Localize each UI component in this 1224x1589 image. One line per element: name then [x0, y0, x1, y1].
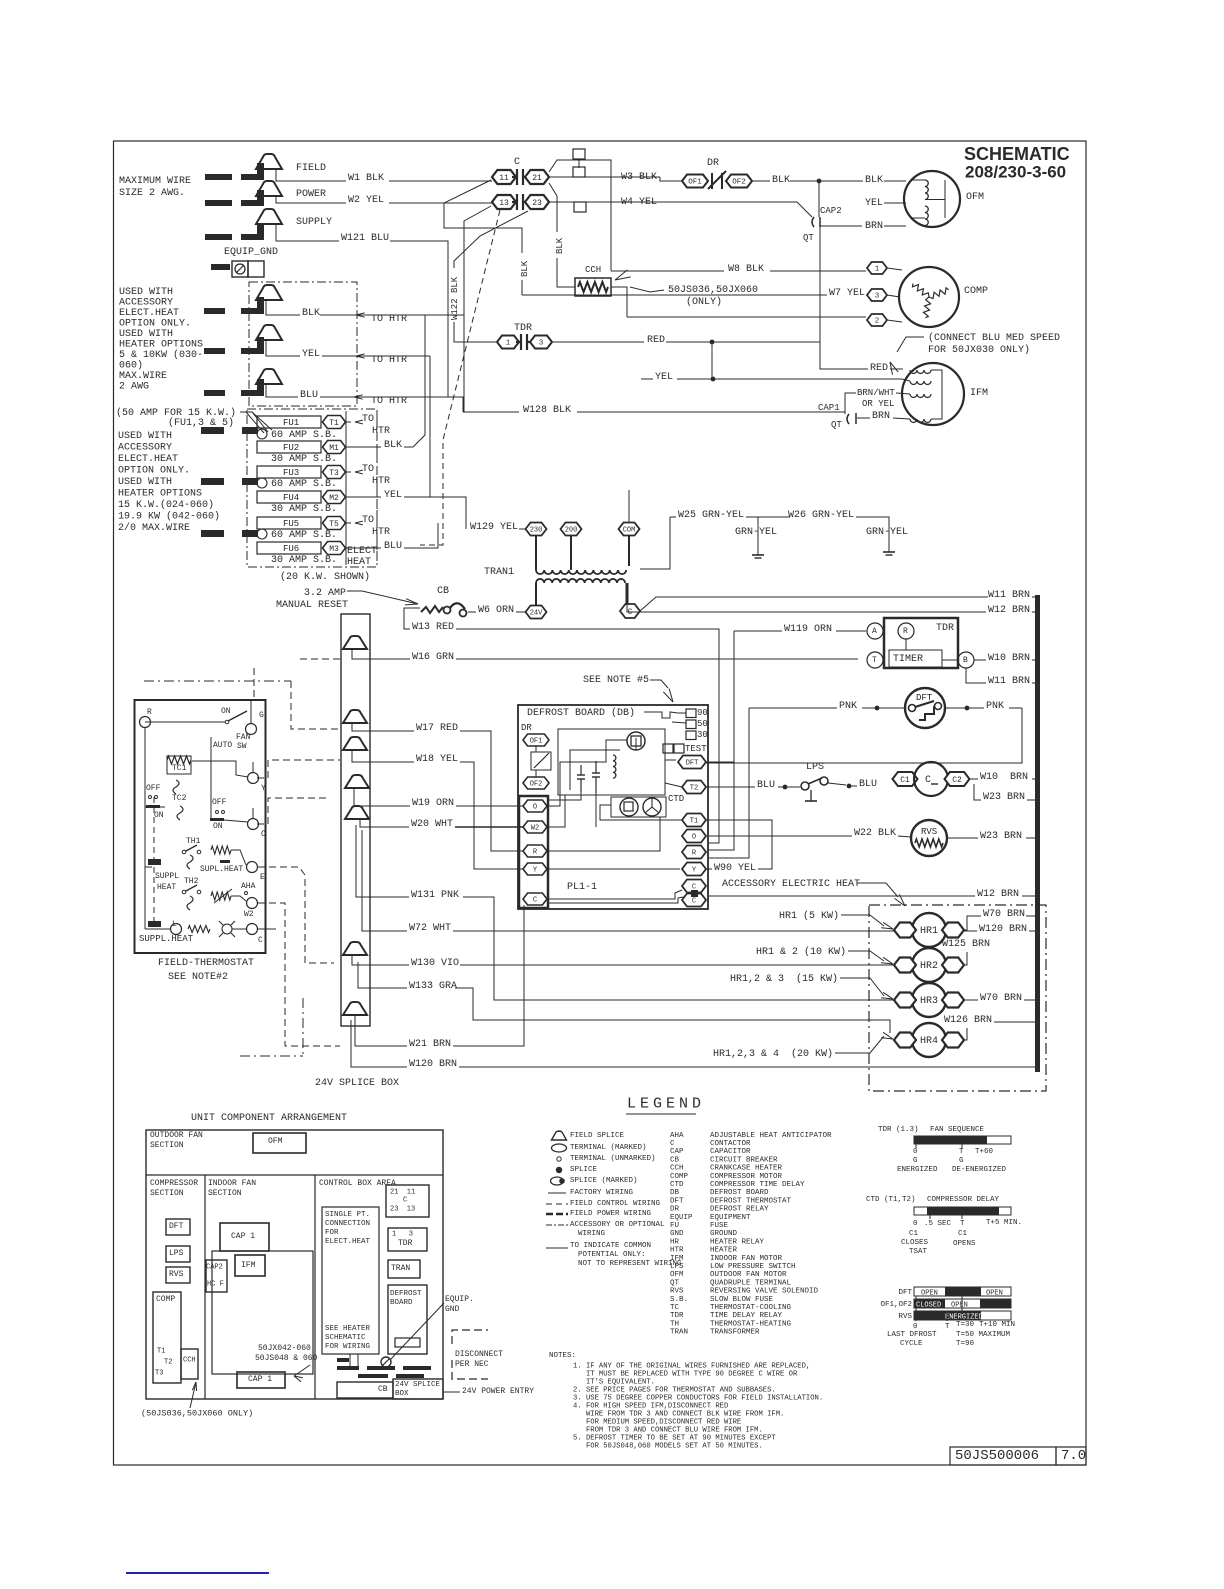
svg-text:TERMINAL (UNMARKED): TERMINAL (UNMARKED): [570, 1155, 656, 1163]
svg-text:60 AMP S.B.: 60 AMP S.B.: [271, 530, 337, 541]
svg-text:YEL: YEL: [655, 372, 673, 383]
svg-text:OFM: OFM: [966, 192, 984, 203]
svg-text:(20 K.W. SHOWN): (20 K.W. SHOWN): [280, 571, 370, 583]
svg-text:24V SPLICE BOX: 24V SPLICE BOX: [315, 1078, 399, 1089]
terminal M2: [323, 491, 346, 504]
wire FU6 BLU: [346, 547, 381, 549]
thermostat Y terminal: [248, 773, 259, 784]
wire CCH leads: [611, 287, 627, 317]
svg-text:21: 21: [532, 174, 542, 183]
svg-text:SEE HEATER: SEE HEATER: [325, 1325, 371, 1333]
DB relay coil circle: [627, 732, 645, 750]
wire hex23 to W4 YEL: [549, 201, 660, 203]
svg-text:SUPPLY: SUPPLY: [296, 217, 332, 228]
svg-text:AHA: AHA: [670, 1132, 684, 1140]
wire W25 GRN-YEL: [640, 597, 988, 611]
thermostat dash-dot boundary: [144, 680, 291, 682]
svg-text:W16 GRN: W16 GRN: [412, 652, 454, 663]
svg-text:1: 1: [875, 266, 880, 274]
svg-text:CTD: CTD: [670, 1181, 684, 1189]
svg-text:W18 YEL: W18 YEL: [416, 754, 458, 765]
svg-text:CAPACITOR: CAPACITOR: [710, 1148, 751, 1156]
svg-text:EQUIP: EQUIP: [670, 1214, 693, 1222]
svg-text:CAP: CAP: [670, 1148, 684, 1156]
wire W21 BRN: [355, 1015, 407, 1046]
svg-text:1: 1: [506, 340, 511, 348]
svg-text:HR1,2,3 & 4 (20 KW): HR1,2,3 & 4 (20 KW): [713, 1048, 833, 1060]
COMP box: [153, 1292, 181, 1383]
svg-text:230: 230: [530, 527, 543, 535]
terminal C strip: [523, 893, 547, 905]
DFT box: [166, 1219, 190, 1235]
svg-text:W19 ORN: W19 ORN: [412, 798, 454, 809]
svg-text:THERMOSTAT-HEATING: THERMOSTAT-HEATING: [710, 1320, 792, 1328]
svg-text:30 AMP S.B.: 30 AMP S.B.: [271, 454, 337, 465]
wire FU2 BLK: [346, 446, 381, 448]
svg-text:HR1: HR1: [920, 926, 938, 937]
CAP2 HC F box: [206, 1260, 227, 1292]
svg-text:FIELD POWER WIRING: FIELD POWER WIRING: [570, 1210, 652, 1218]
wire W120 BRN: [351, 1020, 407, 1067]
svg-text:W1 BLK: W1 BLK: [348, 173, 384, 184]
svg-text:COMP: COMP: [156, 1295, 175, 1304]
terminal tab 1: [573, 149, 585, 159]
svg-text:CAP 1: CAP 1: [231, 1232, 255, 1241]
heater relay HR1: [912, 913, 946, 947]
svg-text:HR2: HR2: [920, 961, 938, 972]
wire BLU to heater: [320, 396, 350, 398]
wire W119 ORN riser: [706, 761, 734, 763]
svg-text:DISCONNECT: DISCONNECT: [455, 1350, 503, 1359]
svg-text:USED WITH: USED WITH: [119, 287, 173, 298]
terminal tab 2: [573, 167, 585, 177]
svg-text:3.2 AMP: 3.2 AMP: [304, 588, 346, 599]
terminal 11: [492, 170, 516, 184]
DB test squares: [663, 744, 673, 753]
svg-text:LOW PRESSURE SWITCH: LOW PRESSURE SWITCH: [710, 1263, 796, 1271]
svg-text:TC: TC: [670, 1304, 680, 1312]
svg-text:FIELD: FIELD: [296, 163, 326, 174]
svg-text:M3: M3: [329, 545, 339, 554]
terminal T circle: [867, 652, 883, 668]
svg-text:FOR WIRING: FOR WIRING: [325, 1343, 371, 1351]
svg-text:CB: CB: [670, 1156, 680, 1164]
svg-text:W126 BRN: W126 BRN: [944, 1015, 992, 1026]
svg-text:W133 GRA: W133 GRA: [409, 981, 457, 992]
svg-text:SECTION: SECTION: [150, 1141, 184, 1150]
legend splice: [556, 1167, 562, 1173]
svg-text:COMPRESSOR DELAY: COMPRESSOR DELAY: [927, 1196, 1000, 1204]
svg-text:G: G: [259, 711, 264, 720]
svg-text:T+60: T+60: [975, 1148, 994, 1156]
PL1-1 terminal strip: [519, 796, 548, 908]
svg-text:BLK: BLK: [555, 237, 565, 254]
svg-text:IFM: IFM: [241, 1261, 256, 1270]
malfunction light: [188, 926, 210, 933]
svg-text:BRN/WHT: BRN/WHT: [857, 388, 895, 398]
thermostat G terminal: [246, 724, 257, 735]
wire W23 BRN from C2: [974, 784, 981, 800]
svg-text:SINGLE PT.: SINGLE PT.: [325, 1211, 370, 1219]
left dashed riser suppl heat: [153, 797, 155, 922]
svg-text:24V POWER ENTRY: 24V POWER ENTRY: [462, 1387, 534, 1396]
svg-text:(50JS036,50JX060 ONLY): (50JS036,50JX060 ONLY): [141, 1409, 253, 1419]
svg-text:DEFROST THERMOSTAT: DEFROST THERMOSTAT: [710, 1197, 792, 1205]
svg-text:OUTDOOR FAN MOTOR: OUTDOOR FAN MOTOR: [710, 1271, 787, 1279]
svg-text:W129 YEL: W129 YEL: [470, 522, 518, 533]
svg-text:W12 BRN: W12 BRN: [988, 605, 1030, 616]
terminal COMP 2: [867, 314, 887, 326]
svg-text:C2: C2: [952, 776, 962, 785]
svg-text:OUTDOOR FAN: OUTDOOR FAN: [150, 1131, 203, 1140]
svg-text:RVS: RVS: [898, 1313, 912, 1321]
svg-text:HEATER RELAY: HEATER RELAY: [710, 1238, 765, 1246]
svg-text:LPS: LPS: [169, 1249, 184, 1258]
svg-text:A: A: [872, 627, 877, 636]
svg-text:W2 YEL: W2 YEL: [348, 195, 384, 206]
heater relay HR2: [912, 948, 946, 982]
svg-text:W23 BRN: W23 BRN: [983, 792, 1025, 803]
heater relay HR4: [912, 1023, 946, 1057]
svg-text:OPTION ONLY.: OPTION ONLY.: [118, 465, 190, 476]
svg-text:50JS500006: 50JS500006: [955, 1448, 1039, 1464]
svg-text:EQUIP_GND: EQUIP_GND: [224, 247, 278, 258]
svg-text:IT MUST BE REPLACED WITH TYPE: IT MUST BE REPLACED WITH TYPE 90 DEGREE …: [573, 1371, 798, 1379]
svg-text:FOR MEDIUM SPEED,DISCONNECT RE: FOR MEDIUM SPEED,DISCONNECT RED WIRE: [573, 1419, 741, 1427]
svg-text:NOTES:: NOTES:: [549, 1352, 576, 1360]
svg-text:ELECT: ELECT: [347, 546, 377, 557]
defrost board DB box: [518, 705, 708, 909]
wire RED to IFM: [820, 342, 868, 369]
svg-text:QT: QT: [803, 233, 814, 243]
svg-text:SLOW BLOW FUSE: SLOW BLOW FUSE: [710, 1296, 774, 1304]
svg-text:CAP2: CAP2: [206, 1264, 223, 1272]
svg-text:T: T: [959, 1148, 964, 1156]
svg-text:BRN: BRN: [865, 221, 883, 232]
svg-text:BLU: BLU: [300, 390, 318, 401]
terminal A circle: [867, 623, 883, 639]
svg-text:OPTION ONLY.: OPTION ONLY.: [119, 318, 191, 329]
svg-text:ACCESSORY: ACCESSORY: [118, 442, 172, 453]
svg-text:Y: Y: [261, 784, 266, 793]
wire W72 WHT: [362, 830, 407, 931]
svg-text:TO: TO: [362, 515, 374, 526]
svg-text:QT: QT: [831, 420, 842, 430]
svg-text:W6 ORN: W6 ORN: [478, 605, 514, 616]
svg-text:S.B.: S.B.: [670, 1296, 688, 1304]
svg-text:HTR: HTR: [372, 476, 390, 487]
wire W11 BRN from B: [966, 668, 986, 683]
svg-text:NOT TO REPRESENT WIRING: NOT TO REPRESENT WIRING: [578, 1260, 682, 1268]
wire W10 BRN from C2: [970, 778, 978, 780]
svg-text:5 & 10KW (030-: 5 & 10KW (030-: [119, 349, 203, 361]
legend common potential: [546, 1247, 568, 1249]
svg-text:50: 50: [697, 719, 708, 729]
legend field control wiring: [546, 1203, 568, 1205]
wire W20 WHT: [360, 819, 409, 827]
terminal M1: [323, 441, 346, 454]
legend factory wiring: [548, 1192, 566, 1194]
wire BLK vertical to W7 YEL: [521, 280, 523, 295]
field power lead dashes SUPPLY: [205, 234, 232, 240]
defrost board box unit: [388, 1285, 427, 1354]
svg-text:OF1: OF1: [688, 179, 702, 187]
wire W12 BRN lower: [709, 895, 975, 897]
svg-text:UNIT COMPONENT ARRANGEMENT: UNIT COMPONENT ARRANGEMENT: [191, 1113, 347, 1124]
terminal O strip: [523, 800, 547, 812]
svg-text:3: 3: [875, 293, 880, 301]
svg-text:CCH: CCH: [585, 265, 601, 275]
svg-text:19.9 KW (042-060): 19.9 KW (042-060): [118, 510, 220, 522]
svg-text:T1: T1: [690, 818, 698, 826]
reversing valve solenoid RVS: [911, 820, 947, 856]
svg-text:LPS: LPS: [806, 762, 824, 773]
legend field power wiring: [546, 1213, 568, 1216]
RVS box: [166, 1267, 190, 1283]
svg-text:W7 YEL: W7 YEL: [829, 288, 865, 299]
wire FU5 to heater: [346, 522, 351, 524]
fuse FU1: [257, 416, 321, 428]
svg-text:W122 BLK: W122 BLK: [450, 276, 460, 320]
svg-text:TSAT: TSAT: [909, 1248, 928, 1256]
svg-text:FOR 50JX030 ONLY): FOR 50JX030 ONLY): [928, 344, 1030, 356]
svg-text:W128 BLK: W128 BLK: [523, 405, 571, 416]
svg-text:3. USE 75 DEGREE COPPER CONDUC: 3. USE 75 DEGREE COPPER CONDUCTORS FOR F…: [573, 1395, 823, 1403]
svg-text:ACCESSORY: ACCESSORY: [119, 297, 173, 308]
svg-text:7.0: 7.0: [1061, 1448, 1086, 1464]
svg-text:M1: M1: [329, 444, 339, 453]
svg-text:TIME DELAY RELAY: TIME DELAY RELAY: [710, 1312, 783, 1320]
svg-text:O: O: [533, 804, 537, 812]
svg-text:FU2: FU2: [283, 443, 299, 453]
svg-text:FROM TDR 3 AND CONNECT BLU WIR: FROM TDR 3 AND CONNECT BLU WIRE FROM IFM…: [573, 1427, 763, 1435]
svg-text:ELECT.HEAT: ELECT.HEAT: [119, 308, 179, 319]
fuse FU2: [257, 441, 321, 453]
svg-text:DEFROST BOARD (DB): DEFROST BOARD (DB): [527, 707, 635, 719]
svg-text:W8 BLK: W8 BLK: [728, 264, 764, 275]
defrost thermostat DFT: [905, 688, 945, 728]
svg-text:C: C: [670, 1140, 675, 1148]
svg-text:HR1 (5 KW): HR1 (5 KW): [779, 910, 839, 922]
field power dashes disconnect: [337, 1366, 359, 1370]
svg-text:HTR: HTR: [372, 527, 390, 538]
svg-text:G: G: [913, 1157, 918, 1165]
svg-text:ELECT.HEAT: ELECT.HEAT: [118, 454, 178, 465]
svg-text:W3 BLK: W3 BLK: [621, 172, 657, 183]
single point connection stubs: [349, 1354, 351, 1368]
QT vertical wire: [818, 181, 820, 217]
svg-text:LAST DFROST: LAST DFROST: [887, 1331, 937, 1339]
svg-text:FOR: FOR: [325, 1229, 339, 1237]
svg-text:W120 BRN: W120 BRN: [409, 1059, 457, 1070]
svg-text:BOARD: BOARD: [390, 1299, 413, 1307]
wire CCH feed vertical: [549, 183, 557, 232]
wire hex21 to W3 BLK: [549, 176, 660, 178]
svg-text:SUPPL.HEAT: SUPPL.HEAT: [139, 934, 194, 944]
svg-text:CRANKCASE HEATER: CRANKCASE HEATER: [710, 1165, 783, 1173]
svg-text:11: 11: [499, 174, 509, 183]
field splice heater BLU: [256, 369, 282, 384]
wire W70 BRN HR1: [964, 916, 981, 930]
junction dot BLK: [790, 180, 863, 182]
wire PNK left: [749, 707, 837, 709]
svg-text:W125 BRN: W125 BRN: [942, 939, 990, 950]
svg-text:CTD (T1,T2): CTD (T1,T2): [866, 1196, 916, 1204]
wire BRN OFM: [820, 225, 862, 227]
splice trapezoid 2: [343, 710, 367, 723]
svg-text:1. IF ANY OF THE ORIGINAL WIRE: 1. IF ANY OF THE ORIGINAL WIRES FURNISHE…: [573, 1363, 810, 1371]
svg-text:T5: T5: [329, 520, 339, 529]
wire W12 BRN top: [627, 604, 986, 612]
svg-text:W21 BRN: W21 BRN: [409, 1039, 451, 1050]
contactor coil C2: [945, 772, 970, 786]
svg-text:MANUAL RESET: MANUAL RESET: [276, 600, 348, 611]
field splice heater BLK: [256, 285, 282, 300]
svg-text:SEE NOTE#2: SEE NOTE#2: [168, 972, 228, 983]
svg-text:DFT: DFT: [686, 760, 699, 768]
svg-text:PNK: PNK: [839, 701, 857, 712]
svg-text:C: C: [514, 157, 520, 168]
svg-text:C1: C1: [958, 1230, 968, 1238]
svg-text:CIRCUIT BREAKER: CIRCUIT BREAKER: [710, 1156, 778, 1164]
svg-text:1 3: 1 3: [392, 1231, 413, 1239]
bottom blue line: [126, 1572, 269, 1574]
transformer secondary coil: [536, 579, 625, 583]
svg-text:13: 13: [499, 199, 509, 208]
svg-text:3: 3: [539, 340, 544, 348]
svg-text:SIZE 2 AWG.: SIZE 2 AWG.: [119, 188, 185, 199]
svg-text:WIRING: WIRING: [578, 1230, 606, 1238]
svg-text:BRN: BRN: [872, 411, 890, 422]
terminal DFT DB: [678, 756, 706, 769]
terminal C transformer: [620, 604, 640, 618]
svg-text:60 AMP S.B.: 60 AMP S.B.: [271, 430, 337, 441]
svg-text:THERMOSTAT-COOLING: THERMOSTAT-COOLING: [710, 1304, 792, 1312]
svg-text:EQUIPMENT: EQUIPMENT: [710, 1214, 751, 1222]
terminal OF1 DB: [523, 734, 549, 746]
svg-text:BLU: BLU: [859, 779, 877, 790]
svg-text:T2: T2: [164, 1359, 172, 1367]
contactor coil circle C_: [914, 762, 948, 796]
compressor motor COMP: [899, 267, 959, 327]
svg-text:COMPRESSOR: COMPRESSOR: [150, 1179, 198, 1188]
svg-text:T: T: [872, 656, 877, 665]
svg-text:T: T: [945, 1323, 950, 1331]
wire W6 ORN: [468, 611, 476, 613]
svg-text:HTR: HTR: [670, 1247, 684, 1255]
DFT gray riser: [706, 762, 749, 764]
wire W19 ORN: [354, 788, 410, 806]
contactor terminal box unit: [386, 1185, 429, 1217]
svg-text:CONNECTION: CONNECTION: [325, 1220, 370, 1228]
svg-text:T: T: [960, 1220, 965, 1228]
fuse FU6: [257, 542, 321, 554]
svg-text:T+5 MIN.: T+5 MIN.: [986, 1219, 1022, 1227]
svg-text:YEL: YEL: [384, 490, 402, 501]
24V splice box: [341, 614, 370, 1026]
terminal C DB lower: [682, 894, 706, 907]
svg-text:COMPRESSOR TIME DELAY: COMPRESSOR TIME DELAY: [710, 1181, 805, 1189]
svg-text:TRANSFORMER: TRANSFORMER: [710, 1329, 760, 1337]
svg-text:30 AMP S.B.: 30 AMP S.B.: [271, 504, 337, 515]
outdoor fan motor OFM: [904, 171, 960, 227]
svg-text:DFT: DFT: [169, 1222, 184, 1231]
svg-text:YEL: YEL: [302, 349, 320, 360]
svg-text:(CONNECT BLU MED SPEED: (CONNECT BLU MED SPEED: [928, 332, 1060, 344]
svg-text:GND: GND: [670, 1230, 684, 1238]
svg-text:TRAN: TRAN: [391, 1264, 410, 1273]
svg-text:IT'S EQUIVALENT.: IT'S EQUIVALENT.: [573, 1379, 655, 1387]
svg-text:2/0 MAX.WIRE: 2/0 MAX.WIRE: [118, 522, 190, 534]
svg-text:C: C: [533, 897, 537, 905]
terminal T3: [323, 466, 346, 479]
svg-text:USED WITH: USED WITH: [118, 477, 172, 488]
svg-text:HR1 & 2 (10 KW): HR1 & 2 (10 KW): [756, 946, 846, 958]
wire W17 RED: [352, 723, 414, 731]
wire W13 RED: [404, 608, 420, 629]
svg-text:2: 2: [875, 318, 880, 326]
contactor contact 13-23: [512, 194, 528, 210]
splice trapezoid 7: [343, 1002, 367, 1015]
terminal tab 3: [574, 202, 586, 212]
svg-text:W10 BRN: W10 BRN: [988, 653, 1030, 664]
splice trapezoid 1: [343, 636, 367, 649]
CAP1 box upper: [220, 1223, 269, 1251]
svg-text:T3: T3: [155, 1370, 163, 1378]
svg-text:W11 BRN: W11 BRN: [988, 676, 1030, 687]
CB box unit: [337, 1382, 393, 1398]
svg-text:HC F: HC F: [207, 1281, 224, 1289]
fuse FU5: [257, 517, 321, 529]
svg-text:ADJUSTABLE HEAT ANTICIPATOR: ADJUSTABLE HEAT ANTICIPATOR: [710, 1132, 832, 1140]
svg-text:ON: ON: [221, 707, 231, 716]
svg-text:DFT: DFT: [898, 1289, 912, 1297]
terminal R DB: [682, 846, 706, 859]
svg-text:SEE NOTE #5: SEE NOTE #5: [583, 675, 649, 686]
terminal O DB: [682, 830, 706, 843]
svg-text:C: C: [925, 775, 931, 786]
svg-text:060): 060): [119, 359, 143, 371]
wire FU4 YEL: [346, 496, 381, 498]
svg-text:W120 BRN: W120 BRN: [979, 924, 1027, 935]
svg-text:50JS036,50JX060: 50JS036,50JX060: [668, 285, 758, 296]
svg-text:TH: TH: [670, 1320, 679, 1328]
svg-text:CLOSES: CLOSES: [901, 1239, 929, 1247]
svg-text:INDOOR FAN: INDOOR FAN: [208, 1179, 256, 1188]
LPS box: [166, 1246, 190, 1262]
svg-text:ON: ON: [154, 811, 164, 820]
DB timer squares 90 50 30: [686, 709, 696, 718]
svg-text:TC1: TC1: [172, 764, 187, 773]
svg-text:RED: RED: [647, 335, 665, 346]
TIMER rect: [889, 650, 942, 667]
fuse FU3: [257, 466, 321, 478]
svg-text:QUADRUPLE TERMINAL: QUADRUPLE TERMINAL: [710, 1279, 792, 1287]
terminal COMP 1: [867, 262, 887, 274]
svg-text:FAN: FAN: [236, 733, 251, 742]
svg-text:DEFROST RELAY: DEFROST RELAY: [710, 1206, 769, 1214]
svg-text:W11 BRN: W11 BRN: [988, 590, 1030, 601]
terminal COM: [619, 523, 640, 536]
svg-text:BLK: BLK: [384, 440, 402, 451]
terminal OF2 DB: [523, 777, 549, 789]
svg-text:TIMER: TIMER: [893, 654, 923, 665]
svg-text:ON: ON: [213, 822, 223, 831]
transformer primary coil: [535, 536, 537, 570]
svg-text:CONTACTOR: CONTACTOR: [710, 1140, 751, 1148]
svg-text:CCH: CCH: [670, 1165, 684, 1173]
svg-text:HTR: HTR: [372, 426, 390, 437]
